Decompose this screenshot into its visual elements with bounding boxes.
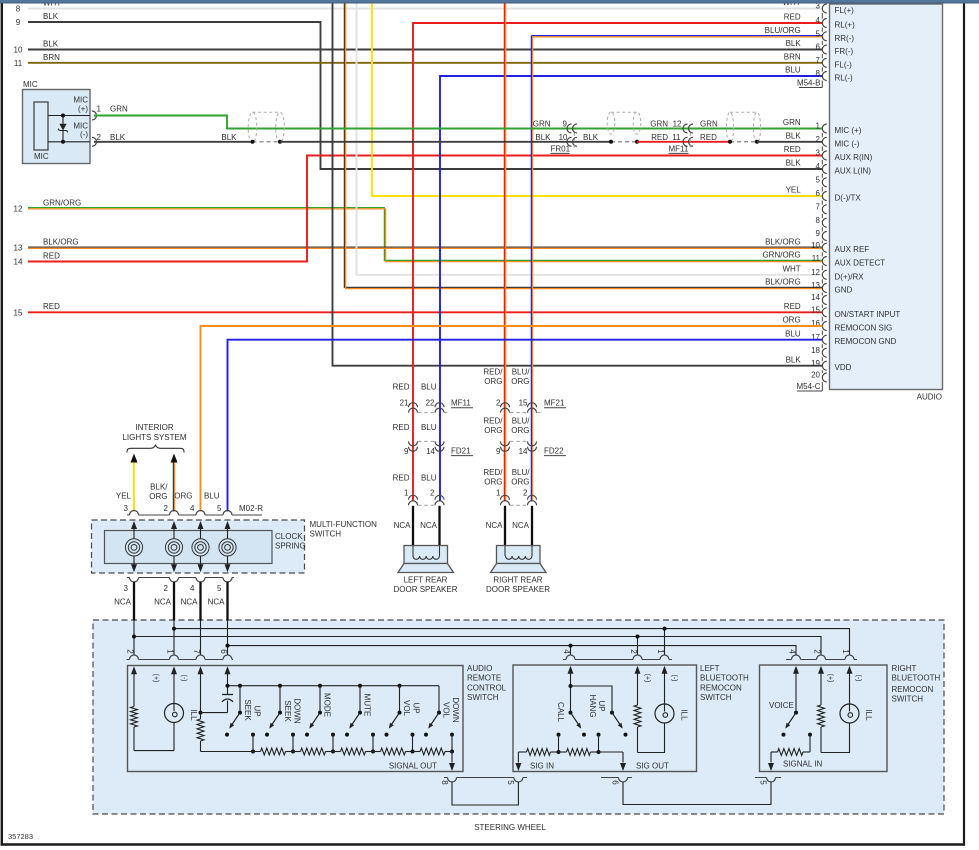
connector MF11 label (418, 412, 435, 414)
svg-text:SIG IN: SIG IN (530, 761, 554, 770)
svg-text:7: 7 (816, 202, 821, 211)
svg-text:M54-B: M54-B (797, 79, 821, 88)
multi-function switch dashed box (92, 520, 305, 573)
ARCS pin 8 (448, 778, 457, 783)
svg-text:SIG OUT: SIG OUT (636, 761, 669, 770)
svg-text:9: 9 (563, 120, 568, 129)
right BT pin 2 (817, 655, 826, 660)
svg-text:ILL: ILL (680, 709, 689, 721)
svg-text:12: 12 (673, 120, 682, 129)
svg-text:2: 2 (97, 133, 102, 142)
svg-text:BLK: BLK (221, 133, 237, 142)
microphone element (34, 102, 48, 150)
svg-text:SPRING: SPRING (275, 542, 306, 551)
svg-text:BLK/ORG: BLK/ORG (43, 238, 79, 247)
wire row 10 BLK to audio FR(-) (28, 49, 823, 51)
svg-text:5: 5 (506, 780, 515, 785)
svg-text:SWITCH: SWITCH (467, 693, 499, 702)
svg-text:BLU: BLU (204, 491, 220, 500)
svg-text:RIGHT REAR: RIGHT REAR (493, 575, 542, 584)
svg-text:UP: UP (597, 700, 606, 711)
zener diode (62, 116, 64, 124)
svg-text:MIC: MIC (73, 96, 88, 105)
right BT SIGNAL IN chain (809, 735, 811, 752)
svg-text:14: 14 (426, 447, 435, 456)
MIC unit box (23, 90, 91, 164)
right BT wire resistor to lamp (821, 723, 850, 753)
wire clock pin 3 to ARCS pin 2 (133, 621, 135, 656)
audio pin 6 FR(-) (822, 45, 826, 54)
right BT pin 1 (845, 655, 854, 660)
svg-text:VOL: VOL (402, 700, 411, 717)
svg-text:BLU/: BLU/ (512, 468, 531, 477)
left BT pin 2 (633, 655, 642, 660)
svg-text:1: 1 (841, 649, 850, 654)
clock spring bottom pin 2 (170, 578, 179, 583)
left BT pin 6 (619, 778, 628, 783)
audio pin 19 VDD (822, 361, 826, 370)
audio pin 7 (822, 205, 826, 214)
svg-text:LIGHTS SYSTEM: LIGHTS SYSTEM (122, 433, 186, 442)
svg-text:10: 10 (14, 46, 23, 55)
svg-text:BLU: BLU (421, 474, 437, 483)
steering wheel dashed box (93, 620, 944, 814)
audio pin 8 (822, 218, 826, 227)
audio pin 5 RR(-) (822, 32, 826, 41)
audio pin 10 AUX REF (822, 243, 826, 252)
svg-text:BLK: BLK (786, 132, 802, 141)
shield S1 drain dots (251, 140, 255, 144)
svg-text:1: 1 (496, 489, 501, 498)
svg-text:RL(+): RL(+) (835, 21, 856, 30)
svg-text:MIC (-): MIC (-) (835, 139, 860, 148)
svg-text:ORG: ORG (174, 491, 192, 500)
svg-text:8: 8 (816, 216, 821, 225)
svg-text:RED: RED (393, 474, 410, 483)
wire NCA right speaker 1 (504, 506, 506, 546)
svg-text:2: 2 (813, 649, 822, 654)
svg-text:RED: RED (784, 302, 801, 311)
connector FR01 label (573, 133, 575, 148)
branch to left BT pin 1 (664, 629, 666, 656)
wire row 15 RED to audio ON/START INPUT (28, 311, 823, 313)
connector FR01 pin 9 (567, 124, 572, 133)
svg-text:REMOCON: REMOCON (700, 683, 742, 692)
audio pin 13 GND (822, 284, 826, 293)
ARCS wire capacitor to pin7 node (201, 712, 228, 714)
svg-text:(+): (+) (644, 674, 651, 683)
svg-text:DOWN: DOWN (293, 698, 302, 724)
audio pin 11 AUX DETECT (822, 257, 826, 266)
clock spring bottom connector line (127, 577, 130, 579)
svg-text:RL(-): RL(-) (835, 74, 854, 83)
connector FR01 pin 10 (567, 137, 572, 146)
svg-text:BLK: BLK (583, 133, 599, 142)
svg-text:BLK: BLK (43, 40, 59, 49)
wire RED S2 to MF11 (637, 141, 730, 143)
ARCS capacitor (222, 694, 233, 696)
svg-text:FR01: FR01 (551, 144, 571, 153)
audio pin 2 MIC (-) (822, 137, 826, 146)
wire NCA clock spring pin 5 to steering wheel (226, 582, 228, 621)
shield S2 drain dashed (611, 141, 637, 143)
audio pin 14 (822, 296, 826, 305)
junction dot bus2 at clock wire (132, 635, 136, 639)
svg-text:BLK: BLK (786, 159, 802, 168)
ARCS lamp ILL (173, 677, 175, 704)
svg-text:HANG: HANG (588, 694, 597, 717)
bottom connector line at left BT pin 6 (601, 777, 619, 779)
svg-text:BLU/: BLU/ (512, 417, 531, 426)
svg-text:MF21: MF21 (544, 399, 565, 408)
bottom connector line at right BT pin 5 (755, 777, 767, 779)
svg-text:18: 18 (811, 346, 820, 355)
svg-text:NCA: NCA (394, 521, 412, 530)
svg-text:AUDIO: AUDIO (917, 392, 942, 401)
connector MF11 mic label (689, 133, 691, 148)
svg-text:10: 10 (811, 241, 820, 250)
wire BLK/ORG from top to audio GND (344, 3, 822, 287)
svg-text:14: 14 (14, 258, 23, 267)
svg-text:1: 1 (166, 649, 175, 654)
wire row 14 RED to audio AUX R(IN) (28, 156, 823, 262)
svg-text:SIGNAL IN: SIGNAL IN (783, 760, 822, 769)
svg-text:4: 4 (190, 504, 195, 513)
wire row 8 WHT to audio FL(+) (28, 8, 823, 10)
svg-text:2: 2 (164, 584, 169, 593)
svg-text:3: 3 (816, 149, 821, 158)
svg-text:12: 12 (811, 268, 820, 277)
junction dot diode bottom (61, 140, 65, 144)
left BT SIG IN down wire (517, 752, 519, 763)
svg-text:REMOCON GND: REMOCON GND (835, 337, 897, 346)
svg-text:22: 22 (426, 398, 435, 407)
svg-text:BLU: BLU (785, 329, 801, 338)
svg-text:M54-C: M54-C (796, 382, 820, 391)
svg-text:RED/: RED/ (483, 417, 503, 426)
svg-text:8: 8 (16, 5, 21, 14)
svg-text:AUX REF: AUX REF (835, 245, 870, 254)
connector MF11 mic pin 12 (683, 124, 687, 133)
svg-text:11: 11 (14, 59, 23, 68)
svg-text:1: 1 (816, 122, 821, 131)
svg-text:WHT: WHT (782, 265, 800, 274)
svg-text:RED: RED (393, 383, 410, 392)
svg-text:NCA: NCA (208, 598, 226, 607)
shield S3 drain dots (728, 140, 732, 144)
left BT wire resistor to lamp (638, 723, 665, 753)
svg-text:FD22: FD22 (544, 446, 564, 455)
junction dot diode top (61, 114, 65, 118)
wire RED/ORG right rear speaker from top (503, 3, 505, 502)
audio pin 3 AUX R(IN) (822, 151, 826, 160)
right BT pin 5 (767, 778, 776, 783)
svg-text:19: 19 (811, 359, 820, 368)
audio pin 16 REMOCON SIG (822, 322, 826, 331)
left BT HANG UP switch (610, 711, 614, 715)
wire YEL to clock spring pin 3 (133, 463, 135, 512)
svg-text:D(+)/RX: D(+)/RX (835, 272, 865, 281)
svg-text:1: 1 (97, 105, 102, 114)
svg-text:GRN: GRN (700, 120, 718, 129)
svg-text:BLU/ORG: BLU/ORG (765, 26, 801, 35)
right BT pin 4 (792, 655, 801, 660)
audio pin 1 MIC (+) (822, 124, 826, 133)
wire row 11 BRN to audio FL(-) (28, 62, 823, 64)
connector MF21 pin 2 (501, 403, 510, 408)
svg-text:REMOCON: REMOCON (892, 685, 934, 694)
audio pin 18 (822, 348, 826, 357)
svg-text:UP: UP (412, 702, 421, 713)
bus wire to remocon pins 4 (228, 646, 797, 656)
ARCS signal out wire (451, 752, 453, 763)
bus wire to remocon pins 1 (174, 629, 850, 656)
connector FD22 pin 9 (501, 441, 510, 446)
svg-text:RED: RED (651, 133, 668, 142)
svg-text:BLK: BLK (535, 133, 551, 142)
svg-text:YEL: YEL (116, 491, 132, 500)
svg-text:(-): (-) (855, 675, 862, 682)
audio pin 12 D(+)/RX (822, 270, 826, 279)
svg-text:(+): (+) (827, 674, 834, 683)
svg-text:4: 4 (190, 584, 195, 593)
left BT pin 4 wire (570, 677, 572, 713)
svg-text:6: 6 (219, 649, 228, 654)
audio pin 17 REMOCON GND (822, 335, 826, 344)
wire WHT from top to audio D(+)/RX (357, 3, 823, 275)
ARCS pin 6 wire to capacitor (227, 677, 229, 695)
connector M02-R pin 2 (170, 511, 179, 516)
wire clock pin 4 to ARCS pin 7 (200, 621, 202, 656)
svg-text:GRN: GRN (783, 118, 801, 127)
wire YEL from top to audio D(-)/TX (372, 3, 823, 196)
svg-text:2: 2 (164, 504, 169, 513)
left BT entry arrows (568, 666, 574, 674)
svg-text:BLU: BLU (785, 66, 801, 75)
ARCS switch SEEK UP (238, 684, 242, 688)
svg-text:RED: RED (700, 133, 717, 142)
bus wire to remocon pins 2 (134, 637, 821, 656)
svg-text:2: 2 (523, 489, 528, 498)
svg-text:12: 12 (14, 204, 23, 213)
svg-text:FL(-): FL(-) (835, 60, 853, 69)
svg-text:GRN/ORG: GRN/ORG (43, 198, 81, 207)
shield S2 drain dots (609, 140, 613, 144)
svg-text:(-): (-) (80, 130, 88, 139)
wire NCA left speaker 1 (412, 506, 414, 546)
svg-text:7: 7 (192, 649, 201, 654)
svg-text:5: 5 (759, 780, 768, 785)
svg-text:ORG: ORG (511, 377, 529, 386)
svg-text:RED/: RED/ (483, 368, 503, 377)
left BT lamp ILL (664, 677, 666, 704)
audio connector M54-C line (821, 123, 823, 125)
svg-text:4: 4 (816, 162, 821, 171)
svg-text:ORG: ORG (782, 316, 800, 325)
connector MF11 pin 21 (409, 403, 418, 408)
svg-text:RED: RED (43, 251, 60, 260)
svg-text:VOL: VOL (442, 702, 451, 719)
svg-text:ORG: ORG (484, 426, 502, 435)
svg-text:MF11: MF11 (669, 144, 689, 153)
svg-text:2: 2 (629, 649, 638, 654)
audio pin 6 D(-)/TX (822, 192, 826, 201)
wire row 12 GRN/ORG to audio AUX DETECT (28, 208, 823, 261)
svg-text:BLU: BLU (421, 383, 437, 392)
audio pin 8 RL(-) (822, 72, 826, 81)
branch to left BT pin 2 (637, 637, 639, 656)
audio pin 7 FL(-) (822, 58, 827, 67)
svg-text:ORG: ORG (149, 492, 167, 501)
right BT entry arrows (793, 666, 799, 674)
svg-text:FD21: FD21 (451, 446, 471, 455)
svg-text:(+): (+) (152, 674, 159, 683)
svg-text:BLUETOOTH: BLUETOOTH (700, 674, 749, 683)
ARCS switch MODE (318, 684, 322, 688)
svg-text:STEERING WHEEL: STEERING WHEEL (474, 823, 546, 832)
ARCS pin 7 wire and resistor (200, 677, 202, 713)
shield S2 ovals (607, 112, 615, 134)
arrow to interior lights 1 (131, 454, 138, 463)
svg-text:2: 2 (430, 489, 435, 498)
svg-text:(+): (+) (78, 104, 88, 113)
svg-text:8: 8 (440, 780, 449, 785)
svg-text:NCA: NCA (486, 521, 504, 530)
connector FD22 pin 14 (528, 441, 537, 446)
svg-text:9: 9 (16, 18, 21, 27)
svg-text:MIC: MIC (34, 152, 49, 161)
svg-text:3: 3 (124, 504, 129, 513)
svg-text:RED: RED (393, 423, 410, 432)
wire NCA right speaker 2 (531, 506, 533, 546)
svg-text:GRN: GRN (110, 105, 128, 114)
left BT pin 5 (514, 778, 523, 783)
audio pin 3 FL(+) (822, 4, 826, 13)
ARCS switch SEEK DOWN (278, 684, 282, 688)
svg-text:5: 5 (217, 504, 222, 513)
audio pin 15 ON/START INPUT (822, 308, 826, 317)
page frame left (1, 3, 3, 846)
wire RED left rear speaker to audio RL(+) (413, 23, 823, 502)
wire ARCS pin 8 to left BT pin 5 (452, 782, 518, 805)
svg-text:ORG: ORG (511, 426, 529, 435)
connector MF21 label (510, 412, 527, 414)
svg-text:INTERIOR: INTERIOR (135, 423, 173, 432)
svg-text:RED: RED (784, 145, 801, 154)
right rear door speaker (497, 546, 541, 564)
svg-text:BLK/ORG: BLK/ORG (765, 237, 801, 246)
svg-text:VOICE: VOICE (769, 701, 794, 710)
svg-text:BRN: BRN (43, 53, 60, 62)
svg-text:357283: 357283 (8, 832, 33, 841)
interior lights brace (127, 445, 184, 452)
wire clock pin 2 to ARCS pin 1 (173, 621, 175, 656)
ARCS entry arrows (131, 666, 137, 674)
svg-text:1: 1 (656, 649, 665, 654)
svg-text:4: 4 (562, 649, 571, 654)
left BT CALL switch (569, 711, 573, 715)
svg-text:MUTE: MUTE (363, 694, 372, 717)
svg-text:RED/: RED/ (483, 468, 503, 477)
svg-text:ORG: ORG (511, 478, 529, 487)
ARCS illumination resistor on pin 2 (133, 677, 135, 707)
connector FD21 pin 14 (435, 441, 444, 446)
svg-text:MF11: MF11 (451, 399, 471, 408)
svg-text:GRN: GRN (533, 120, 551, 129)
junction dot bus1 at clock wire (172, 627, 176, 631)
svg-text:CALL: CALL (556, 702, 565, 723)
svg-text:AUX R(IN): AUX R(IN) (835, 153, 873, 162)
connector FD21 pin 9 (409, 441, 418, 446)
wire NCA left speaker 2 (438, 506, 440, 546)
svg-text:YEL: YEL (786, 186, 802, 195)
wire BLK shield to FR01 (280, 141, 611, 143)
wire clock pin 5 to ARCS pin 6 (227, 621, 229, 656)
connector M02-R pin 5 (223, 511, 232, 516)
svg-text:DOWN: DOWN (451, 697, 460, 723)
audio pin 9 (822, 232, 826, 241)
branch to left BT pin 4 (570, 646, 572, 656)
svg-text:2: 2 (496, 398, 501, 407)
svg-text:DOOR SPEAKER: DOOR SPEAKER (486, 585, 550, 594)
svg-text:13: 13 (811, 281, 820, 290)
svg-text:FL(+): FL(+) (835, 6, 855, 15)
svg-text:NCA: NCA (512, 521, 530, 530)
svg-text:NCA: NCA (420, 521, 438, 530)
wire NCA clock spring pin 2 to steering wheel (173, 582, 175, 621)
svg-text:SWITCH: SWITCH (700, 693, 732, 702)
wire NCA clock spring pin 4 to steering wheel (199, 582, 201, 621)
page frame right (963, 3, 965, 846)
svg-text:ORG: ORG (484, 377, 502, 386)
audio pin 4 AUX L(IN) (822, 165, 826, 174)
right BT lamp ILL (849, 677, 851, 704)
page frame bottom (1, 843, 965, 846)
svg-text:2: 2 (816, 135, 821, 144)
right BT pin 2 wire and resistor (820, 677, 822, 705)
clock spring coil at x=134 (131, 521, 137, 529)
svg-text:AUX DETECT: AUX DETECT (835, 259, 886, 268)
connector right speaker pin 1 (501, 495, 510, 500)
ARCS wire resistor to lamp bottom (134, 750, 174, 752)
svg-text:9: 9 (496, 447, 501, 456)
svg-text:BLK: BLK (786, 39, 802, 48)
svg-text:BLK/: BLK/ (150, 483, 168, 492)
svg-text:5: 5 (217, 584, 222, 593)
audio unit box (830, 4, 943, 390)
connector M02-R pin 3 (130, 511, 139, 516)
svg-text:BLU: BLU (421, 423, 437, 432)
ARCS switch VOL UP (398, 684, 402, 688)
right BT VOICE switch (795, 677, 797, 713)
svg-text:DOOR SPEAKER: DOOR SPEAKER (393, 585, 457, 594)
svg-text:ILL: ILL (864, 709, 873, 721)
svg-text:MIC (+): MIC (+) (835, 126, 862, 135)
svg-text:3: 3 (124, 584, 129, 593)
junction dot bus3 at clock wire (226, 644, 230, 648)
svg-text:SEEK: SEEK (243, 699, 252, 721)
svg-text:6: 6 (816, 189, 821, 198)
svg-text:9: 9 (404, 447, 409, 456)
svg-text:7: 7 (816, 56, 821, 65)
svg-text:4: 4 (816, 16, 821, 25)
svg-text:BRN: BRN (784, 53, 801, 62)
left BT SIG OUT wire (599, 751, 624, 753)
svg-text:RED: RED (784, 13, 801, 22)
right BT top connector line (786, 659, 792, 661)
svg-text:LEFT REAR: LEFT REAR (404, 575, 448, 584)
wire row 13 BLK/ORG to audio AUX REF (28, 246, 823, 248)
